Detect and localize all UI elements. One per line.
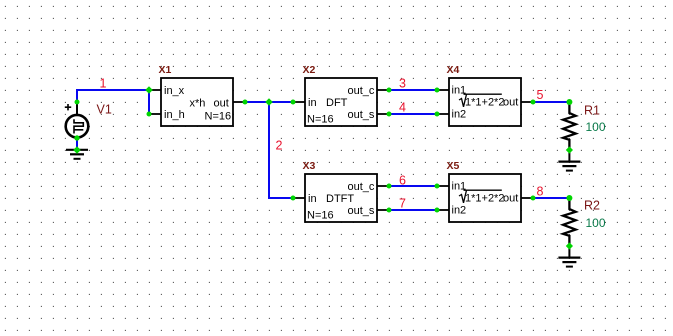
- svg-text:100: 100: [586, 120, 606, 134]
- svg-text:out: out: [503, 193, 518, 205]
- svg-text:100: 100: [586, 216, 606, 230]
- svg-text:in2: in2: [452, 109, 467, 121]
- svg-text:8: 8: [537, 185, 544, 199]
- svg-text:4: 4: [399, 101, 406, 115]
- svg-text:in: in: [308, 97, 317, 109]
- svg-text:out_s: out_s: [348, 205, 375, 217]
- svg-text:2: 2: [276, 139, 283, 153]
- svg-text:6: 6: [399, 174, 406, 188]
- svg-text:out_s: out_s: [348, 109, 375, 121]
- svg-text:7: 7: [399, 197, 406, 211]
- svg-text:N=16: N=16: [307, 114, 334, 126]
- svg-text:DTFT: DTFT: [326, 193, 354, 205]
- svg-text:out_c: out_c: [348, 181, 375, 193]
- svg-text:in: in: [308, 193, 317, 205]
- svg-text:X5: X5: [447, 160, 460, 172]
- svg-text:in_h: in_h: [164, 109, 185, 121]
- svg-text:DFT: DFT: [326, 97, 348, 109]
- svg-text:x*h: x*h: [190, 97, 206, 109]
- svg-text:out: out: [214, 97, 229, 109]
- svg-text:R1: R1: [584, 104, 600, 118]
- svg-text:X1: X1: [159, 64, 172, 76]
- svg-text:out_c: out_c: [348, 85, 375, 97]
- svg-text:3: 3: [399, 77, 406, 91]
- svg-text:V1: V1: [97, 103, 112, 117]
- svg-text:5: 5: [537, 88, 544, 102]
- svg-text:1*1+2*2: 1*1+2*2: [465, 97, 504, 109]
- svg-text:X3: X3: [303, 160, 316, 172]
- svg-text:out: out: [503, 97, 518, 109]
- svg-text:1*1+2*2: 1*1+2*2: [465, 193, 504, 205]
- svg-text:in2: in2: [452, 205, 467, 217]
- svg-text:N=16: N=16: [307, 210, 334, 222]
- svg-text:in_x: in_x: [164, 85, 185, 97]
- svg-text:1: 1: [100, 77, 107, 91]
- svg-text:R2: R2: [584, 199, 600, 213]
- svg-text:X4: X4: [447, 64, 460, 76]
- svg-text:X2: X2: [303, 64, 316, 76]
- svg-text:N=16: N=16: [205, 110, 232, 122]
